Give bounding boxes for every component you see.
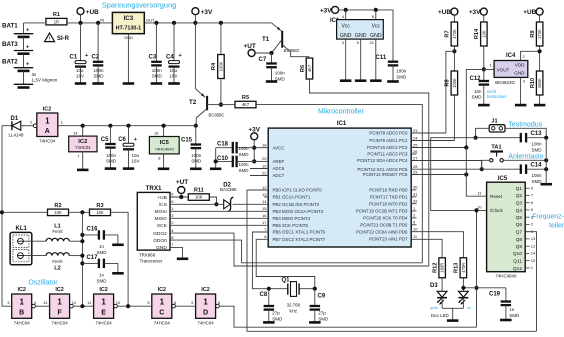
svg-text:74HC04: 74HC04: [39, 139, 56, 144]
svg-text:IC1: IC1: [337, 121, 347, 127]
svg-text:14: 14: [262, 199, 267, 204]
svg-text:Testmodus: Testmodus: [508, 122, 542, 129]
svg-text:1: 1: [203, 297, 208, 306]
svg-text:PB7 OSC2 XTAL2 PCINT7: PB7 OSC2 XTAL2 PCINT7: [273, 237, 326, 242]
svg-text:SMD: SMD: [272, 316, 283, 321]
node VOUT junction: [482, 67, 486, 71]
svg-text:C19: C19: [489, 292, 501, 298]
svg-text:GND: GND: [340, 33, 352, 39]
svg-text:VOUT: VOUT: [497, 67, 510, 72]
svg-text:T1: T1: [262, 36, 270, 43]
wire R1 to IC3 IN: [67, 22, 113, 24]
svg-text:GND: GND: [355, 33, 367, 39]
svg-text:14: 14: [531, 251, 536, 256]
svg-text:Q7: Q7: [516, 230, 523, 236]
svg-text:470K: 470K: [452, 29, 457, 39]
terminal +UB right1: [451, 8, 458, 15]
capacitor C13 100n: [476, 137, 521, 139]
svg-text:C17: C17: [87, 255, 99, 261]
svg-text:100n: 100n: [191, 153, 202, 158]
wire T1 base to +UT node: [272, 39, 283, 53]
svg-text:HT-7130-1: HT-7130-1: [116, 26, 141, 32]
svg-text:SI-R: SI-R: [57, 36, 70, 42]
svg-text:kHz: kHz: [290, 308, 298, 313]
svg-text:IC5: IC5: [498, 176, 508, 182]
svg-text:3x: 3x: [32, 72, 38, 77]
wire TRX +UB: [170, 196, 188, 198]
svg-text:Reset: Reset: [490, 194, 503, 199]
svg-text:74HC4040: 74HC4040: [155, 146, 175, 151]
svg-text:74HC4040: 74HC4040: [495, 274, 517, 279]
svg-text:560K: 560K: [537, 78, 542, 88]
svg-text:BC858C: BC858C: [284, 48, 300, 53]
svg-text:PCINT21 OC0B T1 PD5: PCINT21 OC0B T1 PD5: [360, 223, 408, 228]
wire T2 base: [207, 104, 221, 106]
svg-text:SMD: SMD: [509, 313, 520, 318]
svg-text:C1: C1: [70, 55, 78, 61]
wire T2 collector to switched rail: [196, 109, 207, 126]
wire IC4 VDD to R9: [521, 51, 540, 60]
resistor R8 100K: [453, 51, 455, 70]
svg-text:10: 10: [116, 300, 121, 305]
svg-text:C3: C3: [149, 55, 157, 61]
svg-text:12: 12: [262, 185, 267, 190]
svg-text:Q9: Q9: [516, 244, 523, 250]
svg-text:Q8: Q8: [516, 237, 523, 243]
wire TA1 right: [503, 159, 546, 161]
svg-text:R3: R3: [96, 203, 103, 209]
svg-text:100n: 100n: [152, 68, 163, 73]
svg-text:IC3: IC3: [124, 15, 134, 22]
svg-text:1: 1: [101, 297, 106, 306]
resistor R14 10K: [481, 22, 488, 46]
svg-text:27p: 27p: [318, 311, 326, 316]
svg-text:100n: 100n: [94, 68, 105, 73]
svg-text:Ferrit: Ferrit: [52, 229, 63, 234]
capacitor C14 100n: [482, 168, 521, 170]
resistor R2 10K: [2, 211, 47, 213]
svg-text:ADC6: ADC6: [273, 166, 285, 171]
svg-text:16: 16: [154, 130, 159, 135]
svg-text:+3V: +3V: [469, 9, 481, 16]
svg-text:1: 1: [45, 117, 50, 126]
svg-text:Q10: Q10: [513, 251, 522, 257]
svg-text:+UB: +UB: [157, 195, 166, 201]
transistor T1 BC858C: [281, 31, 283, 48]
svg-text:1R: 1R: [54, 19, 59, 24]
svg-text:10u: 10u: [76, 68, 84, 73]
svg-text:C13: C13: [531, 131, 543, 137]
svg-text:20: 20: [262, 156, 267, 161]
terminal +3V right: [480, 8, 487, 15]
svg-text:PCINT17 TXD PD1: PCINT17 TXD PD1: [370, 195, 408, 200]
svg-text:IC2: IC2: [99, 287, 107, 293]
resistor R13 470R: [460, 258, 467, 278]
wire SCK row PB5: [170, 224, 268, 226]
svg-text:IC2: IC2: [78, 139, 87, 145]
svg-text:10K: 10K: [96, 210, 104, 215]
svg-text:BAT3: BAT3: [2, 41, 18, 48]
svg-text:C9: C9: [318, 294, 326, 300]
terminal +UB: [77, 8, 84, 15]
wire PC6 to Reset node: [411, 174, 466, 176]
svg-text:27p: 27p: [272, 311, 280, 316]
capacitor C6 10u: [126, 124, 130, 128]
svg-text:12: 12: [72, 300, 77, 305]
svg-text:+: +: [26, 45, 29, 51]
inductor L2 Ferrit: [24, 255, 46, 257]
svg-text:E: E: [101, 309, 106, 316]
svg-text:74HC04: 74HC04: [75, 145, 91, 150]
svg-text:A: A: [45, 128, 50, 135]
stub PD0: [411, 189, 416, 191]
svg-text:10K: 10K: [195, 195, 203, 200]
svg-text:Q11: Q11: [513, 259, 522, 265]
svg-text:270K: 270K: [537, 29, 542, 39]
svg-text:R6: R6: [300, 65, 306, 72]
svg-text:+3V: +3V: [201, 9, 213, 16]
svg-text:GND: GND: [156, 245, 167, 251]
wire TA1 left to row: [482, 160, 490, 169]
wire PD6 to R13: [411, 232, 463, 258]
svg-text:10u: 10u: [132, 153, 140, 158]
svg-text:SMD: SMD: [239, 168, 250, 173]
svg-text:C15: C15: [181, 138, 193, 144]
wire PC5 to C14 row: [411, 168, 482, 170]
capacitor C3 100n: [154, 21, 158, 25]
svg-text:26: 26: [413, 149, 418, 154]
svg-text:SMD: SMD: [318, 316, 329, 321]
svg-text:28: 28: [413, 164, 418, 169]
svg-text:22: 22: [262, 170, 267, 175]
wire battery to R1: [24, 22, 45, 24]
svg-text:100n: 100n: [532, 142, 543, 147]
svg-text:Transceiver: Transceiver: [140, 259, 163, 264]
wire PC4 to TA1: [411, 160, 482, 162]
svg-text:PB6 OSC1 XTAL1 PCINT6: PB6 OSC1 XTAL1 PCINT6: [273, 230, 326, 235]
svg-text:10u: 10u: [170, 68, 178, 73]
svg-text:+UB: +UB: [86, 9, 99, 16]
svg-text:BC858C: BC858C: [209, 113, 225, 118]
svg-text:21: 21: [370, 40, 375, 45]
capacitor C8 27p: [267, 287, 271, 291]
svg-text:30: 30: [413, 185, 418, 190]
svg-text:VDD: VDD: [515, 62, 525, 67]
svg-text:18: 18: [262, 143, 267, 148]
svg-text:Oszillator: Oszillator: [28, 280, 58, 287]
svg-text:SMD: SMD: [97, 279, 108, 284]
svg-text:10K: 10K: [481, 30, 486, 38]
svg-text:13: 13: [531, 236, 536, 241]
svg-text:R10: R10: [530, 78, 536, 88]
svg-text:32.768: 32.768: [287, 302, 301, 307]
svg-text:R7: R7: [445, 30, 451, 37]
svg-text:29: 29: [413, 169, 418, 174]
wire gate D output to clock bus: [219, 306, 476, 327]
svg-text:AVCC: AVCC: [273, 145, 285, 150]
stub PD4: [411, 217, 416, 219]
svg-text:24: 24: [413, 135, 418, 140]
transistor T2 BC858C: [195, 23, 205, 98]
wire +3V rail to T1 emitter: [195, 23, 281, 31]
svg-text:R5: R5: [242, 95, 249, 101]
svg-text:IC2: IC2: [18, 287, 26, 293]
svg-text:31: 31: [413, 192, 418, 197]
svg-text:Anlerntaste: Anlerntaste: [508, 154, 544, 161]
svg-text:IC2: IC2: [201, 287, 209, 293]
wire AREF pin20: [254, 160, 268, 162]
svg-text:C7: C7: [259, 57, 267, 63]
svg-text:Q1: Q1: [516, 186, 523, 192]
svg-text:Q3: Q3: [516, 201, 523, 207]
terminal +3V at IC1 power: [332, 6, 339, 13]
svg-text:15: 15: [531, 258, 536, 263]
svg-text:R13: R13: [454, 263, 460, 273]
svg-text:PCINT9 ADC1 PC1: PCINT9 ADC1 PC1: [369, 138, 408, 143]
svg-text:KL1: KL1: [16, 226, 28, 232]
svg-text:+: +: [134, 137, 137, 143]
resistor R5 4K7: [235, 101, 256, 108]
svg-text:BAS385: BAS385: [220, 187, 237, 192]
IC5 power block: [163, 126, 165, 137]
switched power rail: [58, 125, 196, 127]
svg-text:C2: C2: [92, 55, 100, 61]
svg-text:T2: T2: [189, 99, 197, 106]
svg-text:10n: 10n: [474, 89, 482, 94]
wire MOSI row PB3: [170, 210, 268, 212]
LED D3 red: [462, 278, 464, 292]
svg-text:100n: 100n: [106, 153, 117, 158]
svg-text:Q1: Q1: [282, 278, 291, 284]
svg-text:TA1: TA1: [491, 145, 501, 151]
svg-text:74HC04: 74HC04: [14, 321, 31, 326]
svg-text:SMD: SMD: [472, 95, 483, 100]
svg-text:SMD: SMD: [239, 152, 250, 157]
wire PD7 to R12: [411, 239, 442, 258]
node R7 R8 junction: [452, 49, 456, 53]
svg-text:AREF: AREF: [273, 159, 285, 164]
svg-text:BAT1: BAT1: [2, 23, 18, 30]
svg-text:180R: 180R: [440, 263, 445, 273]
svg-text:LL4148: LL4148: [9, 133, 25, 138]
wire R5 to bus: [256, 105, 422, 263]
svg-text:ADC7: ADC7: [273, 173, 285, 178]
svg-text:100n: 100n: [532, 173, 543, 178]
svg-text:10K: 10K: [54, 210, 62, 215]
svg-text:100K: 100K: [219, 61, 224, 71]
svg-text:14: 14: [73, 130, 78, 135]
svg-text:SMD: SMD: [275, 76, 286, 81]
IC1 GND pins to ground: [345, 39, 347, 80]
svg-text:+: +: [26, 28, 29, 34]
terminal +UB right2: [536, 8, 543, 15]
wire IC3 GND to ground: [127, 34, 129, 83]
svg-text:BD4823G: BD4823G: [495, 80, 515, 85]
microcontroller IC1 box: [268, 128, 411, 247]
svg-text:+UB: +UB: [438, 9, 451, 16]
svg-text:C11: C11: [376, 55, 387, 61]
svg-text:Vcc: Vcc: [342, 24, 351, 30]
svg-text:GND: GND: [514, 71, 525, 76]
fuse warning SI-R: [45, 33, 55, 42]
resistor R10 560K: [536, 71, 543, 95]
svg-text:PCINT10 ADC2 PC2: PCINT10 ADC2 PC2: [367, 145, 408, 150]
wire XTAL1 PB6: [252, 232, 287, 289]
svg-text:13: 13: [262, 192, 267, 197]
svg-text:R9: R9: [530, 30, 536, 37]
svg-text:Vcc: Vcc: [372, 24, 381, 30]
wire XTAL2 PB7: [256, 239, 315, 288]
wire MISO row PB4: [170, 217, 268, 219]
svg-text:C6: C6: [118, 137, 126, 143]
svg-text:PB3 MOSI OC2A PCINT3: PB3 MOSI OC2A PCINT3: [273, 209, 324, 214]
svg-text:SMD: SMD: [152, 74, 163, 79]
wire Q7 to divider bus riser: [525, 232, 536, 332]
resistor R1: [46, 18, 67, 25]
svg-text:PCINT19 OC2B INT1 PD3: PCINT19 OC2B INT1 PD3: [356, 209, 408, 214]
svg-text:PCINT18 INT0 PD2: PCINT18 INT0 PD2: [369, 201, 408, 206]
svg-text:Q5: Q5: [516, 215, 523, 221]
svg-text:+: +: [26, 62, 29, 68]
svg-text:D: D: [203, 309, 208, 316]
svg-text:MOSI: MOSI: [155, 209, 167, 215]
svg-text:IC2: IC2: [55, 287, 63, 293]
svg-text:16V: 16V: [170, 74, 178, 79]
svg-text:74HC04: 74HC04: [154, 321, 171, 326]
svg-text:R4: R4: [211, 62, 217, 70]
svg-text:4K7: 4K7: [307, 64, 312, 72]
svg-text:PCINT14 /RESET PC6: PCINT14 /RESET PC6: [363, 172, 408, 177]
svg-text:grün: grün: [430, 306, 438, 310]
svg-text:19: 19: [262, 163, 267, 168]
svg-text:Q2: Q2: [516, 193, 523, 199]
svg-text:C5: C5: [101, 137, 109, 143]
wire C13 C14 to ground: [545, 138, 547, 184]
svg-text:D3: D3: [430, 283, 438, 289]
svg-text:100n: 100n: [275, 71, 286, 76]
svg-text:PCINT12 SDA ADC4 PC4: PCINT12 SDA ADC4 PC4: [357, 158, 408, 163]
left feedback wire: [2, 126, 12, 307]
svg-text:PB5 SCK PCINT5: PB5 SCK PCINT5: [273, 223, 309, 228]
IC2 power block: [82, 126, 84, 136]
svg-text:IC4: IC4: [506, 53, 516, 59]
svg-text:16V: 16V: [132, 159, 140, 164]
wires gate chain: [35, 305, 50, 307]
svg-text:16V: 16V: [76, 74, 84, 79]
svg-text:SMD: SMD: [396, 74, 407, 79]
svg-text:bestücken: bestücken: [487, 94, 507, 99]
svg-text:1: 1: [57, 297, 62, 306]
svg-text:12: 12: [531, 243, 536, 248]
svg-text:Mikrocontroller: Mikrocontroller: [318, 109, 365, 116]
wire IC4 GND to ground: [520, 77, 522, 104]
svg-text:C8: C8: [260, 292, 268, 298]
wire R6 to bus: [310, 79, 429, 266]
svg-text:/CS: /CS: [159, 202, 167, 208]
svg-text:+UT: +UT: [176, 179, 188, 186]
svg-text:SCK: SCK: [157, 223, 168, 229]
svg-text:B: B: [19, 309, 24, 316]
svg-text:1n: 1n: [99, 244, 105, 249]
svg-text:32: 32: [413, 199, 418, 204]
svg-text:teiler: teiler: [549, 223, 564, 230]
svg-text:1,5V Mignon: 1,5V Mignon: [32, 78, 58, 83]
svg-text:10: 10: [413, 227, 418, 232]
wire GDO0 to R5 T2 base: [170, 240, 422, 263]
svg-text:27: 27: [413, 155, 418, 160]
svg-text:C4: C4: [166, 55, 174, 61]
wire PC1 to R8 bottom: [411, 140, 454, 142]
resistor R4 100K: [219, 21, 223, 25]
wire PB0 to IC5 Q7 bus: [247, 190, 537, 331]
svg-text:+UB: +UB: [523, 9, 536, 16]
wire AVCC pin18: [254, 147, 268, 149]
svg-text:D1: D1: [11, 116, 19, 122]
svg-text:/Clock: /Clock: [490, 208, 503, 213]
svg-text:IC5: IC5: [160, 140, 170, 146]
capacitor C5 100n: [108, 124, 112, 128]
wire +3V to Vcc pins: [338, 10, 393, 62]
svg-text:+: +: [179, 53, 182, 59]
wire LED node to C19: [463, 287, 506, 289]
svg-text:PCINT20 XCK T0 PD4: PCINT20 XCK T0 PD4: [363, 216, 408, 221]
svg-text:SMD: SMD: [191, 159, 202, 164]
svg-text:R14: R14: [474, 28, 480, 39]
svg-text:16: 16: [262, 213, 267, 218]
svg-text:L2: L2: [54, 266, 61, 272]
svg-text:R1: R1: [53, 12, 60, 18]
svg-text:74HC04: 74HC04: [96, 321, 113, 326]
terminal +UT: [248, 50, 255, 57]
svg-text:SMD: SMD: [97, 250, 108, 255]
svg-text:IC2: IC2: [158, 287, 166, 293]
svg-text:Spannungsversorgung: Spannungsversorgung: [102, 1, 176, 10]
svg-text:13: 13: [43, 300, 48, 305]
resistor R3 10K: [90, 209, 111, 216]
svg-text:1n: 1n: [509, 307, 515, 312]
svg-text:IN: IN: [100, 18, 104, 23]
wire clock bus riser: [476, 210, 478, 327]
wire PC0 to R7 R8 node: [411, 132, 446, 134]
svg-text:C: C: [159, 309, 164, 316]
svg-text:PB0 ICP1 CLKO PCINT0: PB0 ICP1 CLKO PCINT0: [273, 188, 323, 193]
wire D3 common to ground: [442, 307, 463, 309]
stub PB1: [264, 196, 268, 198]
oscillator node vertical: [81, 212, 83, 306]
svg-text:100n: 100n: [239, 162, 250, 167]
svg-text:SMD: SMD: [532, 148, 543, 153]
svg-text:Q12: Q12: [513, 266, 522, 272]
wire J1 parallel to C13: [476, 128, 490, 137]
svg-text:1: 1: [160, 297, 165, 306]
svg-text:C14: C14: [531, 163, 543, 169]
svg-text:100K: 100K: [452, 78, 457, 88]
svg-text:PCINT22 OC0A AIN0 PD6: PCINT22 OC0A AIN0 PD6: [356, 229, 408, 234]
capacitor C9 27p: [313, 287, 317, 291]
svg-text:Q6: Q6: [516, 222, 523, 228]
wire J1 row to IC5 Clock: [431, 138, 487, 211]
stub ADC6: [250, 168, 268, 170]
svg-text:OUT: OUT: [146, 18, 155, 23]
svg-text:74HC04: 74HC04: [198, 321, 215, 326]
resistor R6 4K7: [306, 58, 313, 79]
svg-text:PB4 MISO PCINT4: PB4 MISO PCINT4: [273, 216, 311, 221]
svg-text:IC2: IC2: [43, 107, 51, 113]
svg-text:J1: J1: [491, 119, 497, 125]
svg-text:1n: 1n: [99, 273, 105, 278]
svg-text:25: 25: [413, 142, 418, 147]
wire IC3 OUT rail +3V: [144, 22, 195, 24]
